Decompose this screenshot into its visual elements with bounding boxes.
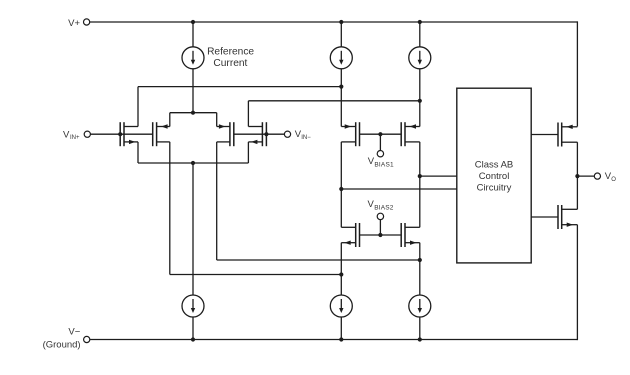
transistor Q3 (PMOS input, VIN-) bbox=[217, 122, 234, 146]
wire Q6 drain to Q8 drain bbox=[419, 142, 421, 227]
V- (Ground) terminal bbox=[84, 336, 90, 342]
VBIAS2 terminal bbox=[377, 213, 383, 219]
node VIN+ at Q1 gate bbox=[118, 132, 122, 136]
node Q4 drain at column C bbox=[418, 99, 422, 103]
transistor Q6 (PMOS cascode, VBIAS1) bbox=[401, 122, 420, 146]
wire VBIAS1 stub bbox=[379, 134, 381, 150]
wire common source horizontal Q2-Q3 bbox=[170, 112, 217, 114]
wire Q1 source down to tail bbox=[137, 142, 139, 163]
wire class AB box to Q9 gate bbox=[531, 134, 558, 136]
wire Q8 source down bbox=[419, 243, 421, 295]
svg-text:IN+: IN+ bbox=[70, 135, 80, 141]
wire Q3 drain down bbox=[216, 142, 218, 260]
wire Q4 drain to column C bbox=[248, 100, 419, 102]
wire V+ rail to current source column B bbox=[340, 22, 342, 47]
wire Q4 source down to tail bbox=[247, 142, 249, 163]
wire Q3 source up to common node bbox=[216, 113, 218, 127]
node bottom rail at column C bbox=[418, 337, 422, 341]
current source I2 bbox=[330, 47, 352, 69]
node tail at column A bbox=[191, 161, 195, 165]
svg-text:O: O bbox=[611, 177, 616, 183]
svg-text:Control: Control bbox=[479, 171, 510, 182]
svg-text:V−: V− bbox=[68, 327, 80, 338]
wire current source I5 to V- rail bbox=[340, 317, 342, 340]
wire column C to class AB box (upper) bbox=[420, 175, 457, 177]
VBIAS1 terminal bbox=[377, 151, 383, 157]
wire right rail lower (Q10 source to V-) bbox=[576, 225, 578, 340]
node top rail at column B bbox=[339, 20, 343, 24]
node output bbox=[575, 174, 579, 178]
transistor Q5 (PMOS cascode, VBIAS1) bbox=[341, 122, 359, 146]
wire output node to VO terminal bbox=[577, 175, 594, 177]
wire NMOS pair common tail bbox=[138, 162, 248, 164]
VIN+ terminal bbox=[84, 131, 90, 137]
transistor Q4 (NMOS input, VIN-) bbox=[248, 122, 266, 146]
wire Q2 source up to common node bbox=[169, 113, 171, 127]
svg-text:Reference: Reference bbox=[207, 46, 254, 57]
wire output node to Q10 drain bbox=[576, 176, 578, 209]
node VIN- at Q4 gate bbox=[264, 132, 268, 136]
wire Q3 drain right to column C bbox=[217, 259, 420, 261]
svg-text:Class AB: Class AB bbox=[475, 159, 514, 170]
svg-text:V: V bbox=[63, 129, 70, 140]
node VBIAS2 gate bbox=[378, 233, 382, 237]
transistor Q10 (NMOS output) bbox=[558, 205, 577, 229]
block Class AB Control Circuitry bbox=[457, 88, 531, 263]
wire Q7 source down bbox=[340, 243, 342, 295]
svg-text:BIAS1: BIAS1 bbox=[374, 161, 394, 168]
wire right rail upper (V+ to Q9 source) bbox=[576, 21, 578, 126]
wire V+ rail to reference current source bbox=[192, 22, 194, 47]
wire Q1 drain up bbox=[137, 87, 139, 127]
svg-text:IN−: IN− bbox=[301, 135, 311, 141]
wire Q5 drain to Q7 drain bbox=[340, 142, 342, 227]
node VBIAS1 gate bbox=[378, 132, 382, 136]
wire column B to class AB box (lower) bbox=[341, 188, 457, 190]
wire VBIAS1 gate bus bbox=[360, 133, 402, 135]
svg-text:(Ground): (Ground) bbox=[43, 339, 81, 350]
transistor Q1 (NMOS input, VIN+) bbox=[120, 122, 138, 146]
transistor Q7 (NMOS cascode, VBIAS2) bbox=[341, 223, 359, 247]
wire V+ rail to current source column C bbox=[419, 22, 421, 47]
wire reference current to input pair common source bbox=[192, 69, 194, 113]
V+ terminal bbox=[84, 19, 90, 25]
svg-text:BIAS2: BIAS2 bbox=[374, 204, 394, 211]
wire tail down to bottom current source bbox=[192, 163, 194, 295]
wire Q9 drain to output node bbox=[576, 142, 578, 176]
wire Q2 drain down bbox=[169, 142, 171, 275]
VO terminal bbox=[594, 173, 600, 179]
transistor Q9 (PMOS output) bbox=[558, 123, 577, 147]
wire class AB box to Q10 gate bbox=[531, 216, 558, 218]
wire bottom rail bbox=[90, 339, 577, 341]
node Q3 drain at column C bbox=[418, 258, 422, 262]
transistor Q2 (PMOS input, VIN+) bbox=[153, 122, 170, 146]
svg-text:Current: Current bbox=[213, 58, 247, 69]
node column C to class AB control bbox=[418, 174, 422, 178]
wire current source I4 to V- rail bbox=[192, 317, 194, 340]
wire Q4 drain up bbox=[247, 101, 249, 127]
svg-text:Circuitry: Circuitry bbox=[477, 182, 512, 193]
node bottom rail at column A bbox=[191, 337, 195, 341]
VIN- terminal bbox=[284, 131, 290, 137]
wire top rail V+ bbox=[90, 21, 578, 23]
wire current source I6 to V- rail bbox=[419, 317, 421, 340]
node column B to class AB control bbox=[339, 187, 343, 191]
current source I6 (bottom, column C) bbox=[409, 295, 431, 317]
wire VBIAS2 gate bus bbox=[360, 234, 402, 236]
node top rail at reference column bbox=[191, 20, 195, 24]
transistor Q8 (NMOS cascode, VBIAS2) bbox=[401, 223, 420, 247]
wire current source B to Q5 source bbox=[340, 69, 342, 127]
svg-text:V+: V+ bbox=[68, 18, 80, 29]
node Q2 drain at column B bbox=[339, 272, 343, 276]
current source I3 bbox=[409, 47, 431, 69]
wire Q1 drain to column B bbox=[138, 86, 341, 88]
current source I-REF (reference current) bbox=[182, 47, 204, 69]
node Q1 drain at column B bbox=[339, 85, 343, 89]
wire current source C to Q6 source bbox=[419, 69, 421, 127]
current source I5 (bottom, column B) bbox=[330, 295, 352, 317]
node bottom rail at column B bbox=[339, 337, 343, 341]
wire VBIAS2 stub bbox=[379, 220, 381, 235]
wire VIN- to Q3/Q4 gates bbox=[234, 133, 285, 135]
current source I4 (tail, bottom column A) bbox=[182, 295, 204, 317]
node input PMOS pair common source bbox=[191, 111, 195, 115]
wire VIN+ to Q1/Q2 gates bbox=[90, 133, 152, 135]
node top rail at column C bbox=[418, 20, 422, 24]
wire Q2 drain right to column B bbox=[170, 274, 341, 276]
